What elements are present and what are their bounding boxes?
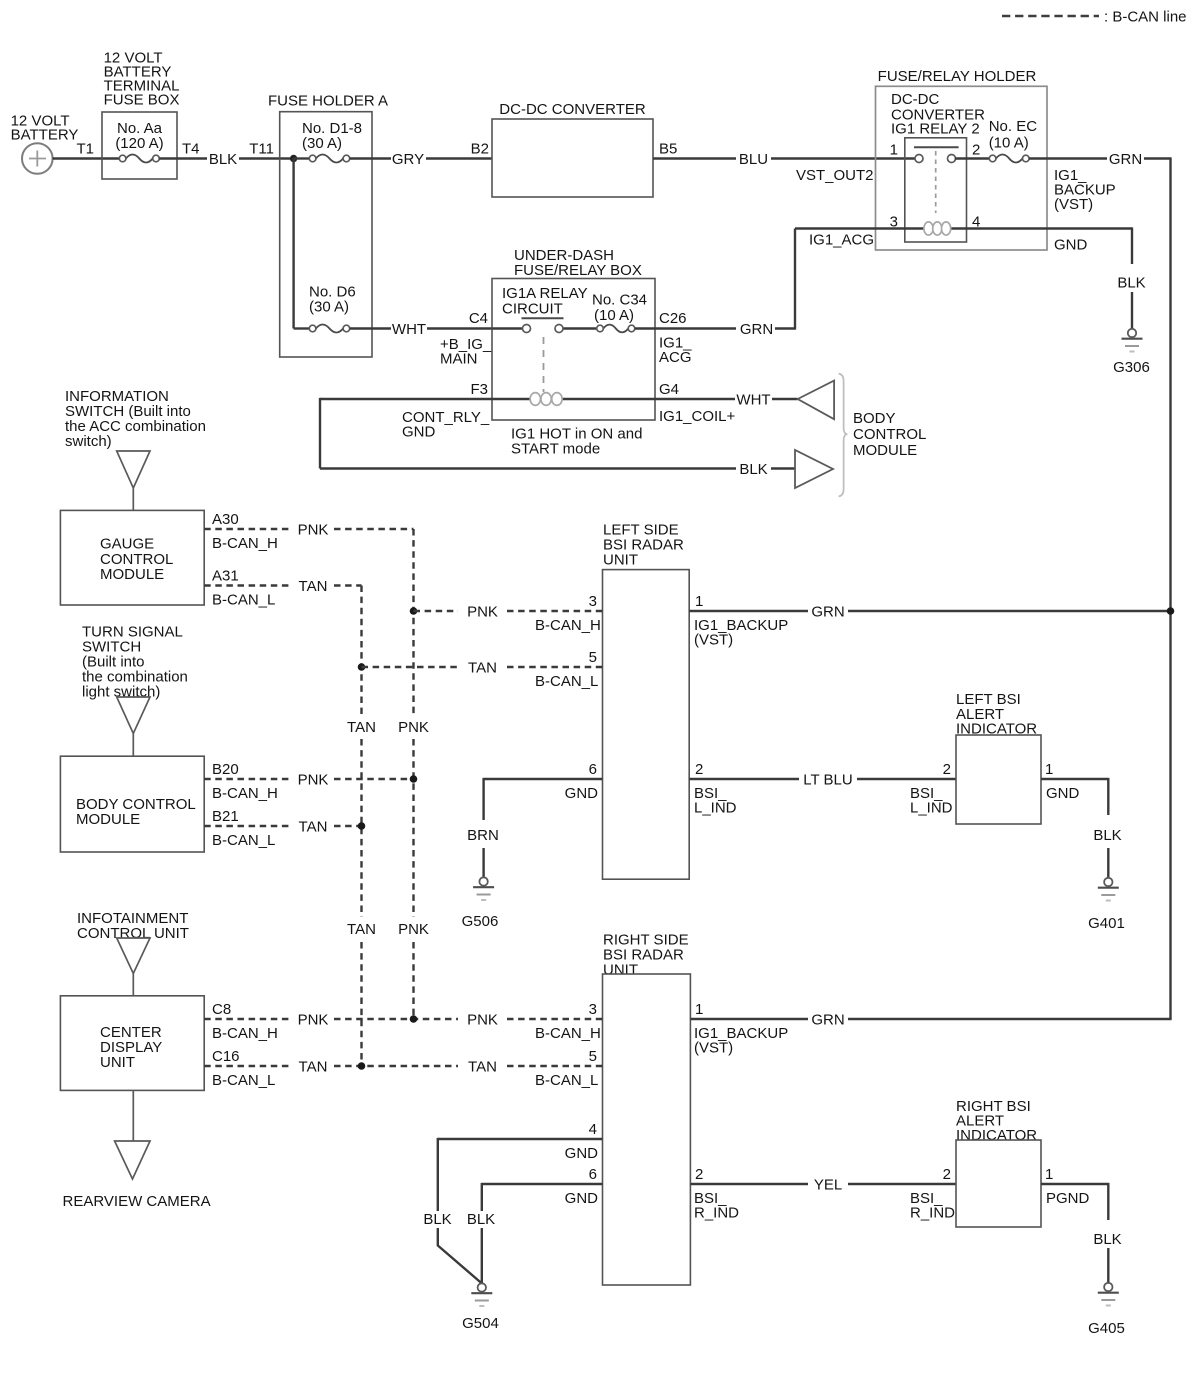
information switch connector triangle xyxy=(117,451,150,488)
wire xyxy=(1107,1248,1109,1283)
wire C8 B-CAN_H dashed (PNK) xyxy=(204,1018,292,1020)
svg-text:FUSE BOX: FUSE BOX xyxy=(104,92,180,109)
wire xyxy=(848,610,1171,612)
svg-text:YEL: YEL xyxy=(814,1177,842,1194)
svg-text:A31: A31 xyxy=(212,568,239,585)
svg-text:B-CAN_L: B-CAN_L xyxy=(212,832,275,849)
wire fuse EC out (GRN) xyxy=(1029,157,1107,159)
svg-text:GRY: GRY xyxy=(392,151,424,168)
svg-text:C8: C8 xyxy=(212,1001,231,1018)
wire C26 out (GRN) xyxy=(655,327,736,329)
ground G506 xyxy=(479,877,487,885)
svg-text:B-CAN_H: B-CAN_H xyxy=(535,617,601,634)
svg-text:(VST): (VST) xyxy=(694,632,733,649)
svg-text:GND: GND xyxy=(565,785,599,802)
node junction GRN bus xyxy=(1167,607,1175,615)
wire xyxy=(771,467,795,469)
svg-text:5: 5 xyxy=(589,649,597,666)
svg-text:2: 2 xyxy=(943,761,951,778)
wire dashed TAN pin 5 xyxy=(507,1065,603,1067)
svg-text:(10 A): (10 A) xyxy=(594,307,634,324)
svg-text:B21: B21 xyxy=(212,808,239,825)
wire xyxy=(775,327,795,329)
battery symbol (circle with plus) xyxy=(22,143,53,174)
svg-text:PNK: PNK xyxy=(398,921,429,938)
svg-text:C16: C16 xyxy=(212,1048,240,1065)
svg-text:(10 A): (10 A) xyxy=(989,135,1029,152)
svg-text:IG1A RELAY: IG1A RELAY xyxy=(502,285,588,302)
node junction PNK C8 xyxy=(410,1015,418,1023)
wire center display to rearview camera xyxy=(132,1090,134,1141)
svg-text:BLK: BLK xyxy=(1093,1231,1121,1248)
wire to BCM (BLK) lower xyxy=(320,467,736,469)
svg-text:B-CAN_L: B-CAN_L xyxy=(535,1072,598,1089)
svg-text:UNIT: UNIT xyxy=(100,1054,135,1071)
under-dash fuse/relay box xyxy=(492,279,655,421)
svg-text:switch): switch) xyxy=(65,433,112,450)
wire dashed PNK pin 3 xyxy=(507,1018,603,1020)
svg-text:F3: F3 xyxy=(470,381,488,398)
wire A31 B-CAN_L dashed (TAN) xyxy=(204,584,292,586)
svg-text:R_IND: R_IND xyxy=(694,1205,739,1222)
svg-text:IG1_ACG: IG1_ACG xyxy=(809,232,874,249)
brace body control module xyxy=(839,374,848,497)
wire to fuse D6 xyxy=(294,327,310,329)
svg-text:GRN: GRN xyxy=(811,1012,844,1029)
wire pin 6 GND xyxy=(484,778,603,780)
svg-text:BLK: BLK xyxy=(739,461,767,478)
svg-text:3: 3 xyxy=(589,593,597,610)
wire dashed TAN to pin 5 xyxy=(362,666,459,668)
wire xyxy=(1107,848,1109,878)
node junction TAN C16 xyxy=(358,1062,366,1070)
svg-text:: B-CAN line: : B-CAN line xyxy=(1104,9,1187,26)
wire F3 to left riser xyxy=(320,398,492,400)
svg-text:IG1 RELAY 2: IG1 RELAY 2 xyxy=(891,121,980,138)
wire xyxy=(507,666,603,668)
left BSI alert indicator box xyxy=(956,735,1041,824)
svg-text:GND: GND xyxy=(1046,785,1080,802)
wire xyxy=(334,1065,458,1067)
fuse No. D6 symbol xyxy=(316,325,343,333)
svg-text:BLK: BLK xyxy=(467,1211,495,1228)
wire pin 6 GND xyxy=(482,1183,603,1185)
center display unit box xyxy=(60,996,204,1091)
svg-text:BODY: BODY xyxy=(853,410,896,427)
wire B21 B-CAN_L dashed (TAN) xyxy=(204,825,292,827)
fuse No. Aa symbol xyxy=(126,155,153,163)
wire triangle to body control module xyxy=(132,734,134,757)
wire xyxy=(334,584,362,586)
svg-text:2: 2 xyxy=(943,1166,951,1183)
ground G504 xyxy=(478,1283,486,1291)
svg-text:B-CAN_L: B-CAN_L xyxy=(212,1072,275,1089)
wire xyxy=(772,398,798,400)
svg-text:6: 6 xyxy=(589,1166,597,1183)
svg-text:G4: G4 xyxy=(659,381,679,398)
svg-text:GAUGE: GAUGE xyxy=(100,536,154,553)
svg-text:BLK: BLK xyxy=(1093,827,1121,844)
svg-text:GND: GND xyxy=(402,424,436,441)
svg-text:FUSE/RELAY HOLDER: FUSE/RELAY HOLDER xyxy=(878,68,1037,85)
svg-text:B-CAN_H: B-CAN_H xyxy=(212,1025,278,1042)
svg-text:R_IND: R_IND xyxy=(910,1205,955,1222)
body control module box xyxy=(60,756,204,852)
svg-text:BRN: BRN xyxy=(467,827,499,844)
wire fuse D6 to under-dash box (WHT) xyxy=(350,327,391,329)
ground G405 xyxy=(1104,1283,1112,1291)
wire xyxy=(334,1018,458,1020)
fuse No. EC symbol xyxy=(996,155,1023,163)
wire B5 to relay (BLU) xyxy=(653,157,736,159)
wire PNK B-CAN_H vertical bus xyxy=(412,529,414,714)
svg-text:WHT: WHT xyxy=(392,321,426,338)
wire C16 B-CAN_L dashed (TAN) xyxy=(204,1065,292,1067)
DC-DC converter box xyxy=(492,119,653,197)
ground G401 xyxy=(1104,878,1112,886)
relay coil loops xyxy=(924,222,933,235)
svg-text:BATTERY: BATTERY xyxy=(11,127,79,144)
wire contact to fuse EC xyxy=(955,157,989,159)
relay contact terminals xyxy=(915,155,923,163)
fuse No. C34 symbol xyxy=(603,325,628,333)
svg-text:PNK: PNK xyxy=(398,719,429,736)
svg-text:TAN: TAN xyxy=(468,1059,497,1076)
wire dashed PNK to pin 3 xyxy=(414,610,459,612)
svg-text:BLK: BLK xyxy=(209,151,237,168)
right side BSI radar unit box xyxy=(603,974,691,1285)
svg-text:2: 2 xyxy=(972,141,980,158)
wire xyxy=(482,848,484,877)
svg-text:(VST): (VST) xyxy=(1054,196,1093,213)
svg-text:G506: G506 xyxy=(462,913,499,930)
wire xyxy=(334,825,362,827)
fuse No. D1-8 symbol xyxy=(316,155,343,163)
svg-text:VST_OUT2: VST_OUT2 xyxy=(796,167,874,184)
wire xyxy=(857,778,956,780)
wire xyxy=(427,327,492,329)
wire xyxy=(239,157,290,159)
svg-text:L_IND: L_IND xyxy=(910,800,953,817)
svg-text:B5: B5 xyxy=(659,141,677,158)
svg-text:FUSE/RELAY BOX: FUSE/RELAY BOX xyxy=(514,262,642,279)
right BSI alert indicator box xyxy=(956,1140,1041,1227)
svg-text:DC-DC CONVERTER: DC-DC CONVERTER xyxy=(499,101,646,118)
svg-text:BLK: BLK xyxy=(423,1211,451,1228)
svg-text:TAN: TAN xyxy=(299,1059,328,1076)
node junction TAN B21 xyxy=(358,822,366,830)
node junction TAN row 667 xyxy=(358,663,366,671)
left side BSI radar unit box xyxy=(603,570,690,880)
wire triangle to center display unit xyxy=(132,974,134,996)
svg-text:MODULE: MODULE xyxy=(100,566,164,583)
wire T11 junction down to fuse D6 xyxy=(292,159,294,329)
svg-text:G405: G405 xyxy=(1088,1320,1125,1337)
svg-text:MODULE: MODULE xyxy=(853,442,917,459)
wire GRN main vertical bus xyxy=(1169,157,1171,1019)
svg-text:GND: GND xyxy=(1054,237,1088,254)
svg-text:G401: G401 xyxy=(1088,915,1125,932)
wire xyxy=(481,1228,483,1283)
wire pin 2 out (YEL) xyxy=(690,1183,808,1185)
svg-text:MAIN: MAIN xyxy=(440,351,478,368)
svg-text:L_IND: L_IND xyxy=(694,800,737,817)
svg-text:B-CAN_L: B-CAN_L xyxy=(212,592,275,609)
svg-text:UNIT: UNIT xyxy=(603,961,638,978)
wire fuse D1-8 to DC-DC converter (GRY) xyxy=(350,157,391,159)
gauge control module U-GCM box xyxy=(60,510,204,605)
wire T4 to T11 (BLK) xyxy=(159,157,207,159)
wire triangle to gauge control module xyxy=(132,488,134,510)
wire pin 1 out (GRN) xyxy=(689,610,808,612)
relay IG1A contact xyxy=(522,317,564,319)
wire xyxy=(1144,157,1171,159)
svg-text:CONTROL: CONTROL xyxy=(853,426,926,443)
wire C34 to box edge xyxy=(635,327,655,329)
svg-text:B-CAN_H: B-CAN_H xyxy=(212,535,278,552)
node junction PNK row 611 xyxy=(410,607,418,615)
svg-text:1: 1 xyxy=(890,141,898,158)
wire xyxy=(334,528,414,530)
legend B-CAN line dashed sample xyxy=(1002,15,1099,18)
svg-text:(30 A): (30 A) xyxy=(302,135,342,152)
svg-text:No. EC: No. EC xyxy=(989,118,1038,135)
svg-text:G504: G504 xyxy=(462,1315,499,1332)
svg-text:UNIT: UNIT xyxy=(603,551,638,568)
wire G4 out (WHT) xyxy=(655,398,735,400)
wire drop (BLK) xyxy=(437,1138,439,1211)
svg-text:2: 2 xyxy=(695,761,703,778)
infotainment connector triangle xyxy=(117,938,150,974)
svg-text:LT BLU: LT BLU xyxy=(803,772,852,789)
svg-text:CIRCUIT: CIRCUIT xyxy=(502,301,563,318)
wire xyxy=(771,157,916,159)
svg-text:(120 A): (120 A) xyxy=(115,135,163,152)
svg-text:TAN: TAN xyxy=(468,660,497,677)
wire B20 B-CAN_H dashed (PNK) xyxy=(204,778,292,780)
wire relay coil row IG1_ACG xyxy=(795,227,1132,229)
turn signal switch connector triangle xyxy=(117,697,150,734)
svg-text:PNK: PNK xyxy=(298,772,329,789)
wire A30 B-CAN_H dashed (PNK) xyxy=(204,528,292,530)
wire GND drop to G306 (BLK) xyxy=(1131,227,1133,264)
svg-text:6: 6 xyxy=(589,761,597,778)
node junction PNK B20 xyxy=(410,775,418,783)
svg-text:B-CAN_H: B-CAN_H xyxy=(535,1025,601,1042)
svg-text:B-CAN_L: B-CAN_L xyxy=(535,673,598,690)
svg-text:1: 1 xyxy=(695,1001,703,1018)
svg-text:A30: A30 xyxy=(212,511,239,528)
svg-text:T4: T4 xyxy=(182,141,200,158)
svg-text:PNK: PNK xyxy=(467,604,498,621)
svg-text:PNK: PNK xyxy=(298,1012,329,1029)
rearview camera connector triangle xyxy=(115,1141,150,1179)
svg-text:TAN: TAN xyxy=(347,719,376,736)
svg-text:REARVIEW CAMERA: REARVIEW CAMERA xyxy=(63,1193,211,1210)
svg-text:1: 1 xyxy=(1045,1166,1053,1183)
wire junction to fuse D1-8 xyxy=(294,157,310,159)
svg-text:INDICATOR: INDICATOR xyxy=(956,1127,1037,1144)
relay contact bar xyxy=(914,146,959,148)
svg-text:(30 A): (30 A) xyxy=(309,299,349,316)
svg-text:GRN: GRN xyxy=(1109,151,1142,168)
relay IG1A actuation dashed link xyxy=(543,337,545,392)
svg-text:MODULE: MODULE xyxy=(76,811,140,828)
wire TAN B-CAN_L vertical bus xyxy=(360,586,362,715)
wire pin 2 out (LT BLU) xyxy=(689,778,799,780)
fuse/relay holder box xyxy=(876,86,1048,250)
svg-text:No. C34: No. C34 xyxy=(592,292,647,309)
svg-text:DC-DC: DC-DC xyxy=(891,91,939,108)
relay actuation dashed link xyxy=(935,151,937,213)
svg-text:(VST): (VST) xyxy=(694,1040,733,1057)
node T11 junction xyxy=(290,155,297,162)
svg-text:PNK: PNK xyxy=(298,522,329,539)
svg-text:PNK: PNK xyxy=(467,1012,498,1029)
wire pin 1 to G405 xyxy=(1041,1183,1108,1185)
svg-text:5: 5 xyxy=(589,1048,597,1065)
relay IG1A coil xyxy=(492,398,655,400)
wire xyxy=(848,1183,956,1185)
fuse holder A box xyxy=(280,112,372,357)
svg-text:4: 4 xyxy=(589,1121,597,1138)
svg-text:C26: C26 xyxy=(659,310,687,327)
svg-text:IG1_COIL+: IG1_COIL+ xyxy=(659,408,736,425)
svg-text:BLU: BLU xyxy=(739,151,768,168)
svg-text:3: 3 xyxy=(589,1001,597,1018)
wire xyxy=(507,610,603,612)
svg-text:B-CAN_H: B-CAN_H xyxy=(212,785,278,802)
wire IG1_ACG riser xyxy=(794,229,796,330)
svg-text:TAN: TAN xyxy=(299,819,328,836)
svg-text:B2: B2 xyxy=(471,141,489,158)
svg-text:PGND: PGND xyxy=(1046,1190,1090,1207)
svg-text:START mode: START mode xyxy=(511,441,600,458)
wire xyxy=(426,157,492,159)
svg-text:B20: B20 xyxy=(212,761,239,778)
svg-text:1: 1 xyxy=(695,593,703,610)
wire drop (BLK) xyxy=(481,1183,483,1211)
svg-text:ACG: ACG xyxy=(659,349,692,366)
wire xyxy=(334,778,414,780)
wire pin 1 to G401 xyxy=(1041,778,1108,780)
svg-text:G306: G306 xyxy=(1113,359,1150,376)
wire xyxy=(438,1228,481,1283)
svg-text:T1: T1 xyxy=(76,141,94,158)
svg-text:GND: GND xyxy=(565,1190,599,1207)
wire pin 1 out (GRN) xyxy=(690,1018,808,1020)
connector arrow to body control module (WHT) xyxy=(798,381,834,420)
relay DC-DC converter IG1 relay 2 box xyxy=(905,138,967,242)
wire riser down xyxy=(319,398,321,469)
svg-text:1: 1 xyxy=(1045,761,1053,778)
svg-text:BLK: BLK xyxy=(1117,275,1145,292)
svg-text:GRN: GRN xyxy=(811,604,844,621)
svg-text:FUSE HOLDER A: FUSE HOLDER A xyxy=(268,93,388,110)
connector arrow from body control module (BLK) xyxy=(795,450,833,488)
svg-text:2: 2 xyxy=(695,1166,703,1183)
svg-text:TAN: TAN xyxy=(299,578,328,595)
ground G306 xyxy=(1128,329,1136,337)
svg-text:WHT: WHT xyxy=(736,392,770,409)
svg-text:T11: T11 xyxy=(249,141,274,158)
wire BRN drop to G506 xyxy=(482,778,484,820)
wire battery to terminal fuse box xyxy=(53,157,120,159)
svg-text:GND: GND xyxy=(565,1145,599,1162)
wire pin 4 GND xyxy=(438,1138,603,1140)
svg-text:TAN: TAN xyxy=(347,921,376,938)
svg-text:C4: C4 xyxy=(469,310,488,327)
wire xyxy=(848,1018,1172,1020)
wire xyxy=(1131,292,1133,329)
12 volt battery terminal fuse box xyxy=(102,112,177,179)
svg-text:GRN: GRN xyxy=(740,321,773,338)
